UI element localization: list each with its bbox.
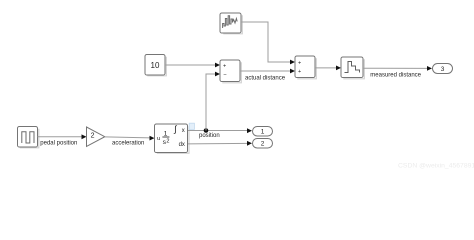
wire dx-output to Out2 (188, 141, 252, 146)
svg-text:2: 2 (261, 141, 265, 148)
svg-text:2: 2 (91, 132, 95, 139)
svg-text:+: + (298, 69, 301, 75)
wire constant to Sum1 plus (165, 63, 220, 68)
svg-text:measured distance: measured distance (370, 72, 421, 78)
svg-text:acceleration: acceleration (112, 140, 144, 146)
block NoiseGen (band-limited white noise) (220, 13, 242, 34)
svg-text:+: + (223, 63, 226, 69)
wire quantizer to Out3 (measured distance) (363, 66, 432, 71)
svg-text:+: + (298, 60, 301, 66)
wire x-output to Out1 (position) (188, 128, 252, 133)
gain U2 (triangle, value 2, acceleration) (87, 127, 105, 146)
svg-text:x: x (182, 128, 185, 134)
wire position feedback up to Sum1 minus (206, 72, 220, 131)
block PulseGen (pedal position source) (18, 127, 39, 148)
outport 2 (253, 139, 273, 149)
outport 3 (433, 64, 453, 74)
quantizer block (341, 57, 364, 79)
sum block Sum2 (+ +) (295, 56, 316, 79)
svg-text:10: 10 (151, 61, 160, 70)
svg-text:position: position (199, 133, 220, 139)
constant block value 10 (145, 55, 166, 76)
wire Sum2 to quantizer (315, 66, 341, 71)
svg-text:CSDN @weixin_45678912345: CSDN @weixin_45678912345 (398, 163, 474, 170)
wire noise to Sum2 top input (241, 22, 295, 64)
svg-text:actual distance: actual distance (245, 75, 286, 81)
svg-text:u: u (157, 136, 160, 142)
svg-text:1: 1 (261, 129, 265, 136)
integrator U3 (1/s^2 second-order integrator) (155, 124, 190, 153)
svg-text:dx: dx (179, 142, 185, 148)
svg-text:pedal position: pedal position (40, 140, 77, 146)
wire gain to integrator (105, 136, 155, 141)
svg-text:3: 3 (441, 66, 445, 73)
badge logging (light-blue) on x output (189, 123, 194, 129)
svg-text:1: 1 (164, 130, 168, 137)
svg-text:2: 2 (166, 138, 169, 144)
junction node position (204, 128, 209, 133)
outport 1 (253, 127, 273, 137)
wire pulsegen to gain (38, 134, 87, 139)
wire Sum1 to Sum2 (actual distance) (240, 69, 295, 74)
sum block Sum1 (+ -) (220, 60, 241, 83)
